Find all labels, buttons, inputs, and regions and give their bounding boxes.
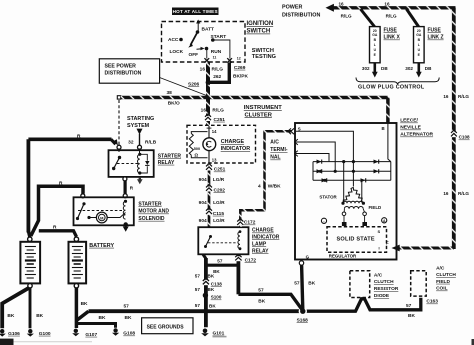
svg-text:57: 57 <box>195 287 201 292</box>
svg-text:16: 16 <box>339 1 345 6</box>
svg-text:RELAY: RELAY <box>158 160 175 166</box>
svg-text:BK: BK <box>308 280 315 286</box>
svg-text:16: 16 <box>443 191 449 196</box>
svg-text:S168: S168 <box>297 317 309 323</box>
svg-text:S: S <box>298 126 301 131</box>
svg-text:I: I <box>379 245 380 250</box>
svg-text:C269: C269 <box>234 65 246 71</box>
svg-text:SWITCH: SWITCH <box>252 48 274 54</box>
svg-text:FIELD: FIELD <box>369 205 382 210</box>
svg-text:CLUTCH: CLUTCH <box>374 279 394 285</box>
svg-text:INSTRUMENT: INSTRUMENT <box>244 105 282 111</box>
svg-text:COIL: COIL <box>436 286 448 292</box>
svg-text:GA: GA <box>372 33 378 37</box>
svg-text:OFF: OFF <box>189 52 199 58</box>
svg-text:LOCK: LOCK <box>170 49 184 55</box>
svg-text:BK: BK <box>36 313 43 319</box>
svg-text:A/C: A/C <box>270 140 279 146</box>
svg-text:STARTING: STARTING <box>127 116 154 122</box>
svg-text:NEVILLE: NEVILLE <box>400 125 421 131</box>
svg-text:ACC: ACC <box>168 37 179 43</box>
svg-text:LG/R: LG/R <box>213 218 225 224</box>
svg-text:SEE POWER: SEE POWER <box>105 63 137 69</box>
svg-text:302: 302 <box>362 66 370 71</box>
svg-text:SWITCH: SWITCH <box>247 29 271 35</box>
svg-text:ALTERNATOR: ALTERNATOR <box>400 132 433 138</box>
svg-text:A/C: A/C <box>436 265 445 271</box>
svg-text:R/LG: R/LG <box>386 14 397 19</box>
svg-text:4: 4 <box>258 183 261 189</box>
svg-text:BK: BK <box>258 299 265 305</box>
svg-text:LG/R: LG/R <box>213 200 225 206</box>
svg-text:G107: G107 <box>85 332 97 338</box>
svg-text:RELAY: RELAY <box>252 248 269 254</box>
svg-text:DB: DB <box>381 66 388 71</box>
svg-text:C172: C172 <box>244 220 256 226</box>
svg-text:13: 13 <box>212 157 217 162</box>
svg-text:904: 904 <box>199 218 207 224</box>
svg-text:POWER: POWER <box>282 5 302 11</box>
svg-text:C251: C251 <box>214 117 226 123</box>
svg-text:BATTERY: BATTERY <box>89 243 114 249</box>
svg-text:BK: BK <box>209 303 216 308</box>
svg-text:G100: G100 <box>39 331 51 337</box>
svg-text:904: 904 <box>199 200 207 206</box>
svg-text:C172: C172 <box>245 257 257 263</box>
svg-text:C115: C115 <box>213 211 225 217</box>
svg-text:302: 302 <box>405 66 413 71</box>
svg-text:TESTING: TESTING <box>252 54 276 60</box>
svg-text:FUSE: FUSE <box>428 27 442 33</box>
svg-text:INDICATOR: INDICATOR <box>252 235 280 241</box>
svg-text:F: F <box>386 240 389 245</box>
svg-text:FUSE: FUSE <box>384 27 398 33</box>
svg-text:DB: DB <box>425 66 432 71</box>
svg-text:L: L <box>374 43 376 47</box>
svg-text:RUN: RUN <box>211 49 222 55</box>
svg-text:R/LG: R/LG <box>458 94 469 99</box>
svg-text:C251: C251 <box>214 167 226 173</box>
svg-text:38: 38 <box>167 90 173 96</box>
svg-text:16: 16 <box>443 94 449 99</box>
svg-text:R: R <box>53 225 57 231</box>
svg-text:LINK Z: LINK Z <box>428 35 444 41</box>
svg-text:BK: BK <box>81 301 88 307</box>
svg-text:LEECE/: LEECE/ <box>400 118 418 124</box>
svg-text:S206: S206 <box>188 81 200 87</box>
svg-text:SYSTEM: SYSTEM <box>127 123 150 129</box>
svg-text:16: 16 <box>201 107 207 113</box>
svg-text:LG/R: LG/R <box>213 177 225 183</box>
svg-text:BK: BK <box>208 287 215 292</box>
svg-text:INDICATOR: INDICATOR <box>221 146 251 152</box>
svg-text:BK: BK <box>408 313 415 319</box>
svg-text:16: 16 <box>200 67 206 73</box>
svg-text:57: 57 <box>124 303 130 309</box>
svg-text:L: L <box>418 43 420 47</box>
svg-text:DIODE: DIODE <box>374 293 390 299</box>
svg-text:MOTOR AND: MOTOR AND <box>138 209 169 215</box>
svg-text:G106: G106 <box>8 331 20 337</box>
svg-text:57: 57 <box>258 288 264 294</box>
svg-text:BK: BK <box>208 274 215 279</box>
svg-text:R/LG: R/LG <box>341 14 352 19</box>
svg-text:C138: C138 <box>211 281 222 286</box>
svg-text:57: 57 <box>294 280 300 286</box>
svg-text:LINK X: LINK X <box>384 35 401 41</box>
svg-text:R/LG: R/LG <box>212 67 224 73</box>
svg-text:BK: BK <box>213 269 220 274</box>
svg-text:16: 16 <box>384 1 390 6</box>
svg-text:STARTER: STARTER <box>158 153 182 159</box>
svg-text:CHARGE: CHARGE <box>252 228 274 234</box>
svg-text:GLOW PLUG CONTROL: GLOW PLUG CONTROL <box>358 85 425 91</box>
svg-text:C202: C202 <box>214 187 226 193</box>
svg-text:SEE GROUNDS: SEE GROUNDS <box>147 324 185 330</box>
svg-text:Ω: Ω <box>194 153 198 158</box>
svg-text:HOT AT ALL TIMES: HOT AT ALL TIMES <box>173 9 218 14</box>
svg-text:B: B <box>382 126 385 131</box>
svg-text:A/C: A/C <box>374 273 383 279</box>
svg-text:32: 32 <box>128 139 134 145</box>
svg-text:REGULATOR: REGULATOR <box>329 254 357 259</box>
svg-text:BK/O: BK/O <box>168 100 180 106</box>
svg-text:BK/PK: BK/PK <box>233 74 248 80</box>
svg-text:IGNITION: IGNITION <box>247 21 274 27</box>
svg-text:FIELD: FIELD <box>436 279 450 285</box>
svg-text:R: R <box>59 180 63 186</box>
svg-text:C108: C108 <box>459 135 470 140</box>
svg-text:LAMP: LAMP <box>252 241 267 247</box>
svg-text:R/LG: R/LG <box>458 191 469 196</box>
svg-text:RESISTOR: RESISTOR <box>374 286 399 292</box>
svg-text:G: G <box>306 255 310 260</box>
svg-text:SOLENOID: SOLENOID <box>138 216 165 222</box>
svg-text:CLUSTER: CLUSTER <box>245 112 273 118</box>
svg-text:DISTRIBUTION: DISTRIBUTION <box>282 12 320 18</box>
svg-text:57: 57 <box>195 303 201 308</box>
svg-text:W/BK: W/BK <box>268 183 281 189</box>
svg-text:G108: G108 <box>123 331 135 337</box>
svg-text:904: 904 <box>199 177 207 183</box>
svg-text:BK: BK <box>99 315 106 321</box>
svg-text:57: 57 <box>217 258 223 263</box>
svg-text:14: 14 <box>212 129 217 134</box>
svg-text:BATT: BATT <box>202 27 215 33</box>
svg-text:G101: G101 <box>213 331 225 337</box>
svg-text:GA: GA <box>416 33 422 37</box>
svg-text:TERMI-: TERMI- <box>270 147 288 153</box>
svg-text:STARTER: STARTER <box>138 201 162 207</box>
svg-text:DISTRIBUTION: DISTRIBUTION <box>105 71 142 77</box>
svg-text:STATOR: STATOR <box>319 195 337 200</box>
svg-text:CHARGE: CHARGE <box>221 139 245 145</box>
svg-text:CLUTCH: CLUTCH <box>436 272 456 278</box>
svg-text:BK: BK <box>125 315 132 321</box>
svg-text:S100: S100 <box>211 295 222 300</box>
svg-text:S: S <box>378 229 381 234</box>
svg-text:C163: C163 <box>426 299 438 305</box>
svg-text:R/LG: R/LG <box>212 107 224 113</box>
svg-text:500: 500 <box>194 147 200 151</box>
svg-text:R/LB: R/LB <box>145 139 157 145</box>
svg-text:SOLID STATE: SOLID STATE <box>337 236 375 242</box>
svg-text:R: R <box>77 133 81 139</box>
svg-text:-: - <box>323 219 324 223</box>
svg-text:57: 57 <box>195 274 201 279</box>
svg-text:57: 57 <box>406 303 412 309</box>
svg-text:12: 12 <box>237 56 241 60</box>
svg-text:BK: BK <box>7 313 14 319</box>
svg-text:262: 262 <box>213 74 221 80</box>
svg-text:11: 11 <box>213 56 217 60</box>
svg-text:NAL: NAL <box>270 155 280 161</box>
